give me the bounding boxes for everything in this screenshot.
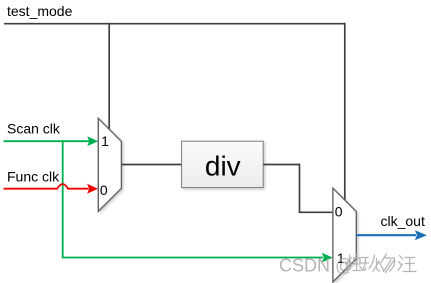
svg-text:Scan clk: Scan clk — [7, 121, 61, 137]
wire test_mode horizontal rail — [4, 23, 345, 25]
glyph gu — [361, 255, 384, 272]
svg-text:test_mode: test_mode — [7, 3, 73, 19]
glyph wang — [398, 256, 416, 272]
divider block U3 — [182, 141, 264, 187]
svg-text:1: 1 — [101, 133, 109, 149]
svg-text:Func clk: Func clk — [7, 168, 60, 184]
arrowhead Scan clk at U1 — [87, 136, 98, 146]
glyph wu — [381, 254, 395, 273]
svg-text:0: 0 — [100, 182, 108, 198]
wire U1 output to divider U3 — [121, 164, 181, 166]
glyph du — [345, 254, 362, 272]
wire U3 output to U2 pin 0 — [263, 165, 332, 213]
svg-text:div: div — [205, 151, 241, 182]
wire test_mode drop to mux U2 select — [344, 23, 346, 201]
watermark CJK glyphs (drawn) — [345, 254, 416, 273]
wire Scan clk (green) into U1 pin 1 — [4, 140, 90, 142]
mux U1 — [98, 118, 121, 211]
wire Scan clk branch down (green), T-junction at (62.7,141) — [62, 140, 64, 257]
wire clk_out (blue) from U2 output — [357, 234, 417, 236]
arrowhead clk_out — [415, 230, 427, 240]
svg-text:0: 0 — [335, 204, 343, 220]
arrowhead Func clk at U1 — [87, 184, 98, 194]
wire Func clk (red) into U1 pin 0 with hop over green wire — [4, 184, 89, 189]
wire test_mode drop to mux U1 select — [108, 23, 110, 130]
mux U2 — [333, 188, 356, 282]
watermark CSDN — [279, 256, 353, 276]
svg-text:CSDN @: CSDN @ — [279, 256, 353, 276]
arrowhead Scan clk at U2 — [322, 253, 333, 263]
svg-text:clk_out: clk_out — [381, 213, 425, 229]
wire Scan clk branch to U2 pin 1 (green) — [62, 257, 323, 259]
